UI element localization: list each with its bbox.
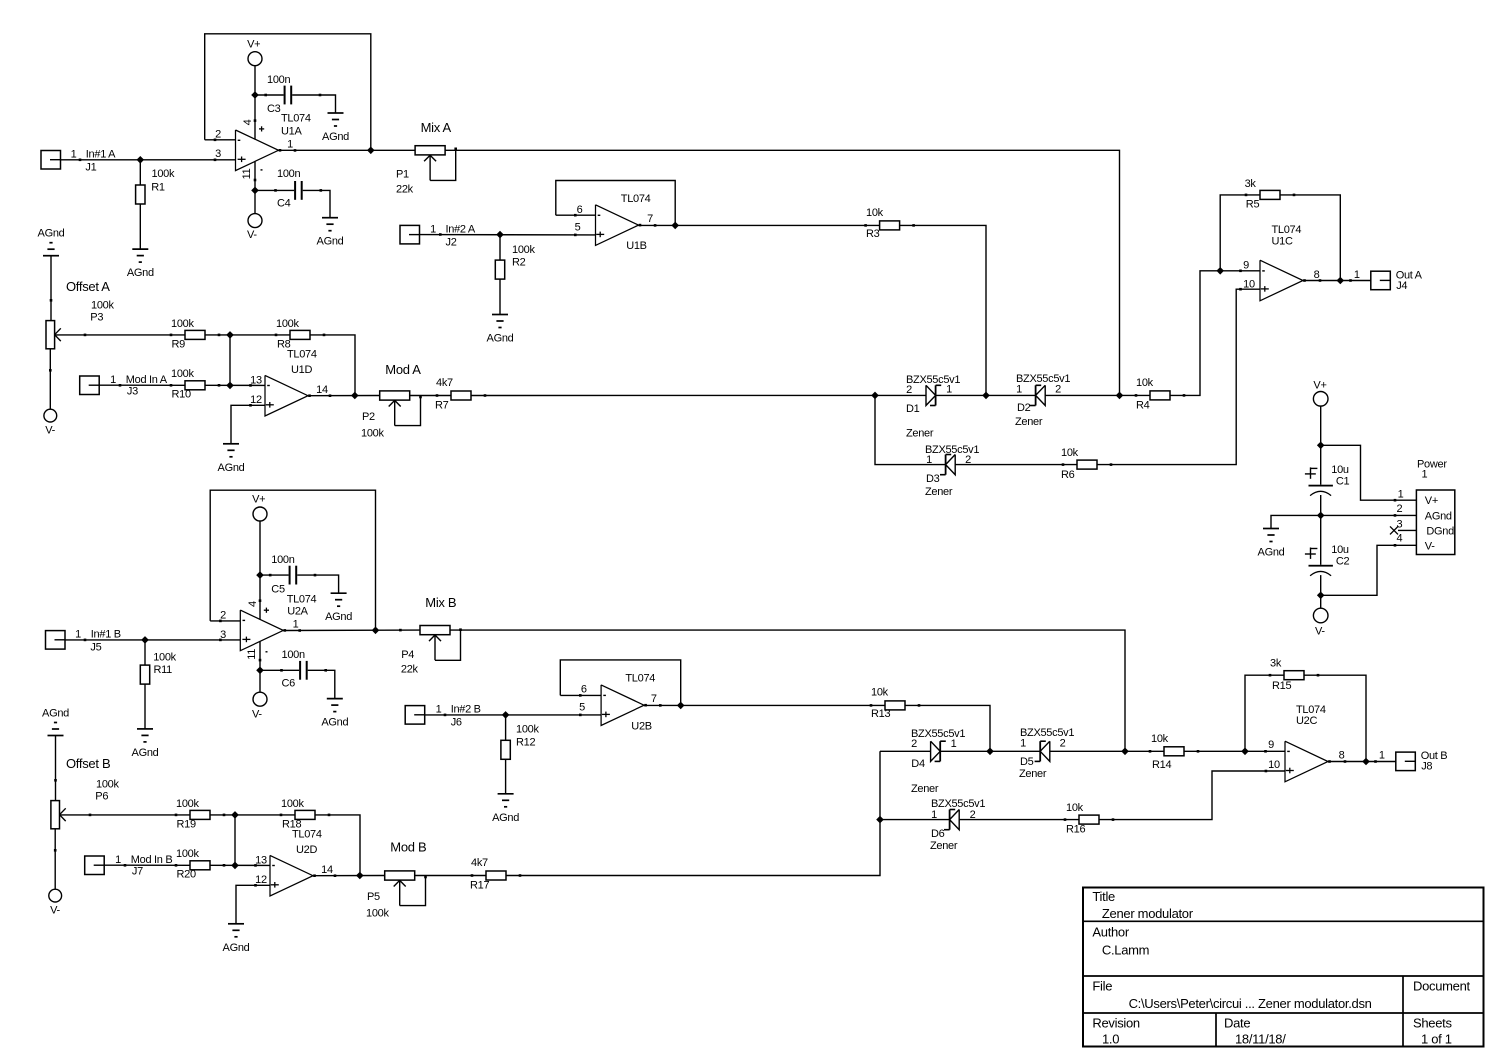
- svg-text:AGnd: AGnd: [127, 267, 154, 279]
- wire R4 to U1C pin9: [1170, 271, 1220, 396]
- svg-text:100k: 100k: [171, 318, 194, 330]
- wire C1 to AGnd node: [1320, 495, 1322, 515]
- svg-text:1: 1: [75, 629, 81, 641]
- svg-text:1: 1: [287, 139, 293, 151]
- wire pin9 B: [1245, 750, 1285, 752]
- svg-text:Author: Author: [1092, 924, 1129, 939]
- resistor R19: [175, 798, 226, 831]
- wire pin11 to V-: [254, 190, 256, 213]
- wire U2B output: [644, 704, 885, 706]
- svg-text:BZX55c5v1: BZX55c5v1: [1020, 727, 1074, 739]
- wire P3 wiper to R9: [55, 334, 185, 337]
- svg-text:D2: D2: [1017, 402, 1031, 414]
- resistor R2: [495, 244, 535, 279]
- svg-text:AGnd: AGnd: [487, 333, 514, 345]
- svg-text:100k: 100k: [96, 778, 119, 790]
- node junction J6/R12: [502, 711, 510, 719]
- svg-text:Mix B: Mix B: [425, 595, 456, 610]
- node junction U2C pin9: [1241, 748, 1249, 756]
- wire R10 to pin13: [205, 384, 265, 386]
- wire U1D pin12: [231, 405, 265, 444]
- svg-text:14: 14: [321, 864, 333, 876]
- svg-text:Document: Document: [1413, 979, 1471, 994]
- wire U2A feedback loop: [210, 490, 375, 630]
- wire U2C output: [1328, 761, 1396, 763]
- svg-text:12: 12: [255, 874, 267, 886]
- wire U1A output: [278, 149, 415, 151]
- svg-text:TL074: TL074: [1272, 224, 1302, 236]
- svg-text:100k: 100k: [153, 651, 176, 663]
- node junction D1/D2/R3: [982, 392, 990, 400]
- svg-text:R15: R15: [1272, 680, 1291, 692]
- svg-text:AGnd: AGnd: [218, 462, 245, 474]
- svg-text:12: 12: [250, 394, 262, 406]
- ground AGnd below U2D pin12: [223, 924, 250, 954]
- svg-text:1: 1: [1354, 269, 1360, 281]
- svg-text:7: 7: [651, 693, 657, 705]
- svg-text:14: 14: [316, 384, 328, 396]
- resistor R14: [1149, 733, 1200, 771]
- svg-text:File: File: [1092, 979, 1112, 994]
- svg-text:1: 1: [1422, 469, 1428, 481]
- svg-text:BZX55c5v1: BZX55c5v1: [906, 374, 960, 386]
- svg-text:Zener: Zener: [911, 783, 939, 795]
- wire U1D output: [309, 395, 380, 397]
- resistor R3: [864, 207, 915, 240]
- wire junction to pin13: [229, 335, 231, 386]
- svg-text:AGnd: AGnd: [325, 611, 352, 623]
- potentiometer P4 Mix B: [399, 595, 462, 675]
- svg-text:U2C: U2C: [1296, 715, 1317, 727]
- wire U1B output: [639, 224, 880, 226]
- svg-text:J5: J5: [90, 642, 101, 654]
- svg-text:R13: R13: [871, 708, 890, 720]
- svg-text:U1A: U1A: [281, 126, 302, 138]
- svg-text:4: 4: [242, 119, 254, 125]
- wire J1 to U1A pin3: [61, 159, 236, 161]
- svg-text:10: 10: [1243, 278, 1255, 290]
- node junction R19/R18/pin13: [231, 811, 239, 819]
- wire pin4 power: [254, 95, 256, 140]
- svg-text:C4: C4: [277, 197, 291, 209]
- svg-text:100k: 100k: [276, 318, 299, 330]
- svg-text:1: 1: [293, 619, 299, 631]
- svg-text:Mod In B: Mod In B: [131, 854, 173, 866]
- wire U2A output: [283, 629, 420, 631]
- svg-text:Zener modulator: Zener modulator: [1102, 906, 1194, 921]
- svg-text:D3: D3: [926, 473, 940, 485]
- connector J4 Out A: [1349, 269, 1422, 292]
- svg-text:AGnd: AGnd: [317, 236, 344, 248]
- svg-text:100k: 100k: [176, 848, 199, 860]
- op-amp U2A: [219, 594, 316, 662]
- svg-text:9: 9: [1268, 739, 1274, 751]
- ground AGnd right of C3: [322, 113, 349, 143]
- ground AGnd right of C5: [325, 593, 352, 623]
- svg-text:2: 2: [1055, 384, 1061, 396]
- svg-text:J8: J8: [1421, 760, 1432, 772]
- svg-text:J2: J2: [446, 237, 457, 249]
- wire C5 right to ground: [297, 575, 338, 593]
- wire AGnd node to C2: [1320, 515, 1322, 564]
- resistor R16: [1064, 802, 1115, 836]
- node V- junction: [1317, 592, 1325, 600]
- wire U1B feedback loop: [556, 181, 675, 226]
- node junction U1C pin9: [1216, 267, 1224, 275]
- diode D4 zener: [911, 728, 965, 795]
- svg-text:R5: R5: [1246, 199, 1260, 211]
- connector J1: [41, 148, 116, 173]
- title block: [1083, 888, 1484, 1047]
- ground AGnd power: [1258, 529, 1285, 559]
- connector J2: [400, 223, 476, 248]
- svg-text:2: 2: [911, 738, 917, 750]
- svg-text:4k7: 4k7: [471, 857, 488, 869]
- wire R20 to pin13 B: [210, 864, 270, 866]
- wire P3 bottom to V-: [49, 349, 52, 410]
- svg-text:11: 11: [241, 168, 253, 179]
- wire AGnd node to Power pin2: [1321, 514, 1417, 517]
- power V- below P3: [44, 409, 57, 437]
- svg-text:2: 2: [1396, 503, 1402, 515]
- svg-text:J3: J3: [127, 385, 138, 397]
- wire R18 to output node: [315, 815, 360, 876]
- wire U2A pin2: [210, 620, 240, 622]
- svg-text:R12: R12: [516, 737, 535, 749]
- svg-text:R19: R19: [177, 819, 196, 831]
- wire pin11 power: [254, 161, 256, 190]
- wire V- node to Power pin4: [1321, 544, 1417, 595]
- wire R11 top: [144, 640, 146, 666]
- svg-text:1: 1: [1016, 384, 1022, 396]
- wire pin9: [1220, 270, 1260, 272]
- svg-text:6: 6: [577, 204, 583, 216]
- resistor R8: [275, 318, 326, 351]
- wire pin11 power U2A: [259, 641, 261, 670]
- resistor R10: [170, 368, 221, 401]
- potentiometer P2 Mod A: [361, 362, 422, 439]
- svg-text:10: 10: [1268, 759, 1280, 771]
- wire D1 to D2: [936, 394, 1036, 396]
- wire R11 bottom: [144, 684, 146, 729]
- svg-text:DGnd: DGnd: [1426, 525, 1454, 537]
- svg-text:18/11/18/: 18/11/18/: [1235, 1032, 1286, 1047]
- wire R5 left to pin9: [1220, 195, 1260, 271]
- wire U2D output: [314, 875, 385, 877]
- ground AGnd below R12: [492, 794, 519, 824]
- power V- below P6: [49, 889, 62, 917]
- svg-text:Zener: Zener: [906, 428, 934, 440]
- wire AGnd node left: [1271, 515, 1321, 528]
- power V+ U2A: [252, 494, 267, 521]
- wire U2B feedback loop: [560, 660, 680, 706]
- svg-text:8: 8: [1339, 749, 1345, 761]
- wire P6 bottom to V-: [54, 829, 57, 890]
- resistor R4: [1135, 377, 1186, 412]
- svg-text:11: 11: [246, 649, 258, 660]
- svg-text:1.0: 1.0: [1102, 1032, 1119, 1047]
- svg-text:R20: R20: [177, 869, 196, 881]
- power V- U1A: [247, 214, 262, 241]
- svg-text:TL074: TL074: [287, 349, 317, 361]
- node junction D5/R14/MixB: [1121, 748, 1129, 756]
- ground AGnd right of C4: [317, 218, 344, 248]
- connector J7: [85, 854, 173, 878]
- ground AGnd below R11: [132, 729, 159, 759]
- svg-text:1: 1: [71, 148, 77, 160]
- diode D1 zener: [906, 374, 960, 440]
- svg-text:Zener: Zener: [1015, 416, 1043, 428]
- power V+ supply: [1313, 379, 1328, 406]
- diode D2 zener: [1015, 373, 1070, 428]
- svg-text:13: 13: [250, 374, 262, 386]
- power V+ U1A: [247, 39, 262, 66]
- wire D5 to R14: [1050, 750, 1164, 752]
- svg-text:3: 3: [215, 148, 221, 160]
- svg-text:Sheets: Sheets: [1413, 1016, 1452, 1031]
- svg-text:R6: R6: [1061, 469, 1075, 481]
- svg-text:22k: 22k: [396, 184, 414, 196]
- svg-text:1: 1: [115, 854, 121, 866]
- svg-text:1: 1: [926, 454, 932, 466]
- wire P2 wiper loop: [395, 396, 421, 426]
- svg-text:R16: R16: [1066, 824, 1085, 836]
- ground AGnd above P6 (flipped): [42, 708, 69, 736]
- resistor R13: [870, 687, 921, 720]
- svg-text:10k: 10k: [1066, 802, 1084, 814]
- svg-text:9: 9: [1243, 259, 1249, 271]
- resistor R9: [170, 318, 221, 351]
- svg-text:U1D: U1D: [291, 364, 312, 376]
- svg-text:1: 1: [430, 223, 436, 235]
- svg-text:P5: P5: [367, 891, 380, 903]
- svg-text:100k: 100k: [516, 724, 539, 736]
- capacitor C3: [264, 74, 321, 115]
- svg-text:R1: R1: [151, 182, 165, 194]
- wire V- down: [1320, 595, 1322, 608]
- node U1D output junction: [351, 392, 359, 400]
- wire R15 left to pin9: [1245, 675, 1284, 751]
- svg-text:P2: P2: [362, 411, 375, 423]
- svg-text:10k: 10k: [1136, 377, 1154, 389]
- node U1B output junction: [671, 222, 679, 230]
- svg-text:D1: D1: [906, 403, 920, 415]
- potentiometer P1 Mix A: [396, 120, 457, 195]
- node junction R10/pin13: [226, 382, 234, 390]
- svg-text:U2A: U2A: [287, 605, 308, 617]
- potentiometer P6 Offset B: [51, 756, 120, 829]
- svg-text:3k: 3k: [1270, 658, 1282, 670]
- connector Power 1: [1396, 459, 1454, 555]
- svg-text:1: 1: [1379, 749, 1385, 761]
- node U2A output junction: [372, 627, 380, 635]
- svg-text:J6: J6: [451, 717, 462, 729]
- svg-text:In#2 B: In#2 B: [451, 703, 481, 715]
- wire U2B pin6: [560, 694, 601, 696]
- svg-text:AGnd: AGnd: [321, 717, 348, 729]
- svg-text:100n: 100n: [271, 554, 294, 566]
- svg-text:Mix A: Mix A: [421, 120, 452, 135]
- svg-text:Zener: Zener: [925, 486, 953, 498]
- svg-text:1: 1: [1398, 489, 1404, 501]
- node V+ junction: [1317, 442, 1325, 450]
- potentiometer P5 Mod B: [366, 840, 427, 920]
- resistor R17: [470, 857, 521, 892]
- svg-text:AGnd: AGnd: [1425, 510, 1452, 522]
- capacitor C6: [280, 649, 327, 689]
- op-amp U1B: [574, 193, 656, 252]
- svg-text:P3: P3: [90, 311, 103, 323]
- svg-text:1: 1: [946, 384, 952, 396]
- wire D3 branch down: [875, 395, 946, 464]
- svg-text:C6: C6: [282, 677, 296, 689]
- ground AGnd below R2: [487, 315, 514, 345]
- wire P6 wiper to R19: [60, 814, 191, 817]
- resistor R1: [136, 168, 175, 204]
- svg-text:D4: D4: [911, 758, 925, 770]
- ground AGnd right of C6: [321, 699, 348, 729]
- wire R17 to Mod B riser: [506, 751, 880, 875]
- op-amp U2B: [579, 672, 662, 732]
- connector J3: [80, 374, 168, 398]
- wire U1C output: [1303, 280, 1371, 282]
- diode D6 zener: [930, 798, 985, 852]
- wire C2 to V- node: [1320, 575, 1322, 595]
- wire C6 right to ground: [308, 670, 335, 698]
- wire Mix A net: [445, 150, 1119, 395]
- wire R5 right to output: [1280, 195, 1340, 280]
- svg-text:1 of 1: 1 of 1: [1421, 1032, 1452, 1047]
- node junction D2/R4/MixA: [1116, 392, 1124, 400]
- svg-text:V-: V-: [45, 425, 55, 437]
- wire C5 left: [260, 574, 289, 576]
- svg-text:100n: 100n: [282, 649, 305, 661]
- wire C4 left: [255, 189, 294, 191]
- svg-text:AGnd: AGnd: [492, 812, 519, 824]
- wire R12 top: [505, 715, 507, 740]
- svg-text:5: 5: [575, 221, 581, 233]
- connector J6: [405, 703, 481, 728]
- svg-text:V-: V-: [252, 709, 262, 721]
- svg-text:Zener: Zener: [930, 840, 958, 852]
- node U2D output junction: [356, 872, 364, 880]
- wire junction to pin13 B: [234, 815, 236, 866]
- svg-text:3: 3: [1396, 519, 1402, 531]
- svg-text:AGnd: AGnd: [42, 708, 69, 720]
- ground AGnd above P3 (flipped): [38, 228, 65, 256]
- wire R1 bottom: [139, 204, 141, 249]
- resistor R18: [280, 798, 331, 831]
- svg-text:100k: 100k: [281, 798, 304, 810]
- svg-text:AGnd: AGnd: [132, 747, 159, 759]
- power V- U2A: [252, 692, 267, 720]
- node junction J1/R1: [137, 156, 145, 164]
- svg-text:Date: Date: [1224, 1016, 1250, 1031]
- svg-text:V-: V-: [1315, 626, 1325, 638]
- svg-text:P4: P4: [401, 649, 414, 661]
- svg-text:BZX55c5v1: BZX55c5v1: [925, 444, 979, 456]
- svg-text:D6: D6: [931, 828, 945, 840]
- wire P1 wiper loop: [430, 150, 456, 180]
- svg-text:R14: R14: [1152, 759, 1171, 771]
- svg-text:BZX55c5v1: BZX55c5v1: [1016, 373, 1070, 385]
- svg-text:J7: J7: [132, 865, 143, 877]
- svg-text:C2: C2: [1336, 555, 1350, 567]
- svg-text:100k: 100k: [152, 168, 175, 180]
- wire P5 wiper loop: [400, 876, 426, 906]
- svg-text:10k: 10k: [866, 207, 884, 219]
- svg-text:Offset B: Offset B: [66, 756, 110, 771]
- svg-text:10u: 10u: [1331, 464, 1349, 476]
- wire AGnd to P3: [50, 256, 53, 321]
- svg-text:2: 2: [906, 384, 912, 396]
- svg-text:P1: P1: [396, 169, 409, 181]
- svg-text:100k: 100k: [176, 798, 199, 810]
- node U1A output junction: [367, 147, 375, 155]
- wire V+ to C1: [1320, 445, 1322, 484]
- svg-text:Mod A: Mod A: [385, 362, 421, 377]
- svg-text:100n: 100n: [267, 74, 290, 86]
- svg-text:4k7: 4k7: [436, 377, 453, 389]
- wire P5 to R17: [415, 875, 486, 877]
- svg-text:2: 2: [1060, 737, 1066, 749]
- wire J3 to R10: [99, 384, 185, 386]
- svg-text:22k: 22k: [401, 663, 419, 675]
- wire R7 to D1: [471, 394, 926, 396]
- svg-text:10k: 10k: [871, 687, 889, 699]
- svg-text:Mod In A: Mod In A: [126, 374, 168, 386]
- svg-text:1: 1: [110, 374, 116, 386]
- wire V+ to Power pin1: [1321, 445, 1417, 501]
- svg-text:TL074: TL074: [287, 594, 317, 606]
- wire D3 to R6: [955, 464, 1077, 466]
- svg-text:V+: V+: [1425, 495, 1438, 507]
- svg-text:BZX55c5v1: BZX55c5v1: [911, 728, 965, 740]
- svg-text:TL074: TL074: [621, 193, 651, 205]
- svg-text:C1: C1: [1336, 475, 1350, 487]
- wire pin11 to V- U2A: [259, 670, 261, 692]
- wire C3 left: [255, 94, 284, 96]
- svg-text:TL074: TL074: [292, 829, 322, 841]
- node V+/C5 junction: [256, 571, 264, 579]
- wire C6 left: [260, 669, 299, 671]
- wire C3 right to ground: [292, 95, 335, 113]
- resistor R11: [140, 651, 176, 684]
- resistor R20: [175, 848, 226, 881]
- svg-text:Revision: Revision: [1092, 1016, 1140, 1031]
- op-amp U2D: [254, 829, 336, 897]
- wire R19 to R18: [210, 814, 295, 816]
- power V- supply: [1313, 608, 1328, 637]
- svg-text:AGnd: AGnd: [322, 131, 349, 143]
- svg-text:C:\Users\Peter\circui ... Zene: C:\Users\Peter\circui ... Zener modulato…: [1129, 996, 1372, 1011]
- node U1C output junction: [1337, 277, 1345, 285]
- svg-text:100n: 100n: [277, 168, 300, 180]
- wire J5 to U2A pin3: [65, 639, 240, 641]
- wire R9 to R8: [205, 334, 290, 336]
- capacitor C4: [274, 168, 322, 209]
- svg-text:Offset A: Offset A: [66, 279, 110, 294]
- svg-text:1: 1: [951, 738, 957, 750]
- svg-text:13: 13: [255, 854, 267, 866]
- node AGnd junction: [1317, 512, 1325, 520]
- svg-text:In#1 A: In#1 A: [86, 148, 116, 160]
- svg-text:U1C: U1C: [1272, 236, 1293, 248]
- wire U2D pin12: [236, 885, 270, 924]
- svg-text:TL074: TL074: [625, 672, 655, 684]
- op-amp U1A: [214, 113, 311, 182]
- svg-text:C5: C5: [271, 583, 285, 595]
